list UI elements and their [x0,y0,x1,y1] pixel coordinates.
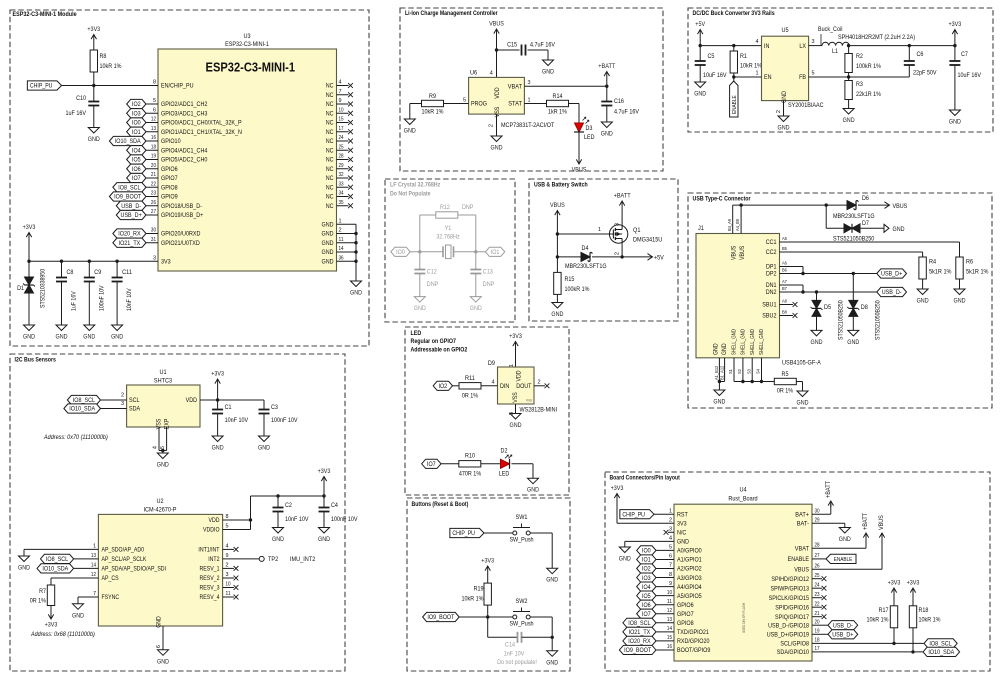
svg-text:36: 36 [339,255,344,261]
svg-text:GND: GND [542,69,554,76]
svg-text:RESV_2: RESV_2 [200,575,220,582]
svg-text:4: 4 [491,380,494,386]
svg-text:STS521050B250: STS521050B250 [874,300,881,340]
svg-text:A7: A7 [782,279,787,285]
svg-text:B6: B6 [782,268,787,274]
svg-text:5k1R 1%: 5k1R 1% [966,269,989,276]
svg-text:GND: GND [272,536,284,543]
svg-text:24: 24 [815,582,820,588]
svg-text:IMU_INT2: IMU_INT2 [290,556,316,563]
svg-text:14: 14 [667,626,672,632]
svg-text:IO7: IO7 [642,611,651,618]
svg-text:NC: NC [326,175,334,182]
svg-text:IO5: IO5 [132,157,141,164]
svg-text:CHIP_PU: CHIP_PU [452,530,475,537]
svg-text:GPIO19/USB_D+: GPIO19/USB_D+ [161,212,203,219]
svg-text:MBR230LSFT1G: MBR230LSFT1G [833,213,875,220]
svg-text:GPIO7: GPIO7 [677,611,694,618]
svg-text:VBUS: VBUS [794,566,809,573]
svg-text:GPIO4/ADC1_CH4: GPIO4/ADC1_CH4 [161,147,208,154]
svg-text:NC: NC [326,129,334,136]
svg-text:I2C Bus Sensors: I2C Bus Sensors [15,357,57,364]
svg-text:R4: R4 [929,259,936,266]
svg-text:IO8_SCL: IO8_SCL [628,620,651,627]
svg-text:SCL/GPIO8: SCL/GPIO8 [780,641,809,648]
svg-text:MBR230LSFT1G: MBR230LSFT1G [565,263,607,270]
svg-text:10uF 16V: 10uF 16V [958,72,982,79]
svg-text:NC: NC [326,157,334,164]
svg-text:Li-Ion Charge Management Contr: Li-Ion Charge Management Controller [405,10,498,17]
svg-text:15: 15 [667,635,672,641]
svg-text:IN: IN [764,43,770,50]
svg-text:D7: D7 [862,220,869,227]
svg-text:RST: RST [677,511,688,518]
svg-text:DP2: DP2 [766,271,777,278]
svg-text:S1: S1 [728,369,734,374]
svg-text:VDD: VDD [209,517,220,524]
svg-text:Buttons (Reset & Boot): Buttons (Reset & Boot) [412,501,469,508]
svg-text:+BATT: +BATT [598,63,615,70]
svg-text:4: 4 [490,71,493,77]
svg-text:11: 11 [667,599,672,605]
svg-text:LED: LED [499,471,510,478]
svg-text:R2: R2 [856,53,863,60]
svg-text:16: 16 [667,644,672,650]
svg-text:LX: LX [799,43,806,50]
svg-text:IO6: IO6 [132,166,141,173]
svg-text:USB & Battery Switch: USB & Battery Switch [534,182,588,189]
svg-text:GND: GND [954,298,966,305]
svg-text:IO20_RX: IO20_RX [118,231,141,238]
svg-text:16: 16 [151,135,156,141]
svg-text:GND: GND [839,536,851,543]
svg-text:NC: NC [326,120,334,127]
svg-text:10: 10 [667,590,672,596]
svg-text:4: 4 [339,80,342,86]
svg-text:IO1: IO1 [132,129,141,136]
svg-text:USB Type-C Connector: USB Type-C Connector [693,196,752,203]
svg-text:14: 14 [339,246,344,252]
svg-text:33: 33 [339,181,344,187]
svg-text:GND: GND [949,119,961,126]
svg-text:RXD/GPIO20: RXD/GPIO20 [677,638,710,645]
svg-text:IO2: IO2 [132,101,141,108]
svg-text:IO8_SCL: IO8_SCL [73,397,96,404]
svg-text:GND: GND [713,343,720,355]
svg-text:20: 20 [151,163,156,169]
svg-text:C16: C16 [614,98,624,105]
svg-text:R18: R18 [919,607,929,614]
svg-text:13: 13 [667,617,672,623]
svg-text:0R 1%: 0R 1% [30,598,47,605]
svg-text:SPIHD/GPIO12: SPIHD/GPIO12 [771,576,809,583]
svg-text:ICM-42670-P: ICM-42670-P [144,507,178,514]
svg-text:Regular on GPIO7: Regular on GPIO7 [411,338,457,345]
svg-text:+5V: +5V [654,254,664,261]
svg-text:CC2: CC2 [766,249,777,256]
svg-text:IO1: IO1 [491,249,500,256]
svg-text:3: 3 [509,412,515,415]
svg-text:11: 11 [226,591,231,597]
svg-text:CHIP_PU: CHIP_PU [30,83,53,90]
svg-text:DC/DC Buck Converter 3V3 Rails: DC/DC Buck Converter 3V3 Rails [693,10,776,17]
svg-text:R7: R7 [39,588,46,595]
svg-text:DN1: DN1 [766,282,777,289]
svg-text:IO3: IO3 [132,110,141,117]
svg-text:+3V3: +3V3 [888,580,901,587]
svg-text:22: 22 [815,601,820,607]
svg-text:SW1: SW1 [516,514,528,521]
svg-text:GND: GND [56,334,68,341]
svg-text:D4: D4 [582,245,589,252]
svg-text:23: 23 [151,191,156,197]
svg-text:9: 9 [339,98,342,104]
svg-text:SPIQ/GPIO17: SPIQ/GPIO17 [775,614,809,621]
svg-text:U6: U6 [470,70,477,77]
svg-text:+3V3: +3V3 [949,21,962,28]
svg-text:U3: U3 [243,33,250,40]
svg-text:IO0: IO0 [132,120,141,127]
svg-text:3: 3 [615,223,621,226]
svg-text:IO2: IO2 [438,383,447,390]
svg-text:100nF 10V: 100nF 10V [271,417,298,424]
svg-text:SCL: SCL [129,397,140,404]
svg-text:19: 19 [151,154,156,160]
svg-text:GND: GND [88,136,100,143]
svg-text:27: 27 [815,553,820,559]
svg-text:C14: C14 [505,642,515,649]
svg-text:SHELL_GND: SHELL_GND [732,329,738,355]
svg-text:BOOT/GPIO9: BOOT/GPIO9 [677,647,711,654]
svg-text:U5: U5 [781,27,788,34]
svg-text:8: 8 [226,514,229,520]
svg-text:IO10_SDA: IO10_SDA [928,649,954,656]
svg-text:15: 15 [339,117,344,123]
svg-text:PROG: PROG [471,101,487,108]
svg-text:21: 21 [815,611,820,617]
svg-text:VBUS: VBUS [893,203,908,210]
svg-text:Do not populate!: Do not populate! [497,659,537,666]
svg-text:VBAT: VBAT [508,83,522,90]
svg-text:7: 7 [93,591,96,597]
svg-text:RESV_4: RESV_4 [200,594,220,601]
svg-text:+3V3: +3V3 [611,485,624,492]
svg-text:5: 5 [669,545,672,551]
svg-text:B7: B7 [782,286,787,292]
svg-text:FSYNC: FSYNC [102,594,120,601]
svg-text:R3: R3 [856,81,863,88]
svg-text:SDA: SDA [129,406,141,413]
svg-text:GND: GND [778,125,790,132]
svg-text:1nF 10V: 1nF 10V [504,651,525,658]
svg-text:7: 7 [669,563,672,569]
svg-text:L1: L1 [832,48,838,55]
svg-text:+3V3: +3V3 [87,26,100,33]
svg-text:C15: C15 [507,42,517,49]
svg-text:IO7: IO7 [427,461,436,468]
svg-text:INT2: INT2 [208,556,220,563]
svg-text:29: 29 [815,518,820,524]
svg-text:GPIO7: GPIO7 [161,175,178,182]
svg-text:GND: GND [212,445,224,452]
svg-text:3: 3 [812,39,815,45]
svg-text:34: 34 [339,191,344,197]
svg-text:GND: GND [491,145,503,152]
svg-text:VDDIO: VDDIO [203,527,220,534]
svg-text:INT1/INT: INT1/INT [198,547,219,554]
svg-text:DIN: DIN [500,383,510,390]
svg-text:B1_A12: B1_A12 [719,365,725,380]
svg-text:12: 12 [151,117,156,123]
svg-text:SHTC3: SHTC3 [154,378,172,385]
svg-text:10: 10 [339,107,344,113]
svg-text:VDD: VDD [186,397,198,404]
svg-text:GND: GND [414,305,426,312]
svg-text:GND: GND [601,131,613,138]
svg-text:C7: C7 [961,51,968,58]
svg-text:28: 28 [339,154,344,160]
svg-text:B5: B5 [782,246,787,252]
svg-text:6: 6 [153,107,156,113]
svg-text:+3V3: +3V3 [318,468,331,475]
svg-text:3V3: 3V3 [677,520,687,527]
svg-text:U4: U4 [739,487,746,494]
svg-text:WS2812B-MINI: WS2812B-MINI [520,407,558,414]
svg-text:D3: D3 [586,125,593,132]
svg-text:21: 21 [151,172,156,178]
svg-text:NC: NC [326,194,334,201]
svg-text:470R 1%: 470R 1% [459,471,482,478]
svg-text:IO10_SDA: IO10_SDA [115,138,141,145]
svg-text:0R 1%: 0R 1% [777,388,794,395]
svg-text:GND: GND [510,422,522,429]
svg-text:VBAT: VBAT [795,545,809,552]
svg-text:GND: GND [72,612,84,619]
svg-text:TXD/GPIO21: TXD/GPIO21 [677,629,709,636]
svg-text:VBUS: VBUS [489,21,504,28]
svg-text:11: 11 [339,237,344,243]
svg-text:RESV_1: RESV_1 [200,566,220,573]
svg-text:USB_D-: USB_D- [121,203,141,210]
svg-text:GND: GND [322,258,334,265]
svg-text:NC: NC [326,203,334,210]
svg-text:GND: GND [350,290,362,297]
svg-text:C1: C1 [225,404,232,411]
svg-text:NC: NC [326,184,334,191]
svg-text:19: 19 [815,629,820,635]
svg-text:C11: C11 [122,269,132,276]
svg-text:C6: C6 [917,51,924,58]
svg-text:9: 9 [226,553,229,559]
svg-text:GPIO0/ADC1_CH0/XTAL_32K_P: GPIO0/ADC1_CH0/XTAL_32K_P [161,120,242,127]
svg-text:1: 1 [669,508,672,514]
svg-text:DMG3415U: DMG3415U [633,237,662,244]
svg-text:GND: GND [322,240,334,247]
svg-text:GND: GND [404,128,416,135]
svg-text:S4: S4 [756,369,762,374]
svg-text:IO8_SCL: IO8_SCL [46,556,69,563]
svg-text:GND: GND [893,226,905,233]
svg-text:ENABLE: ENABLE [788,556,810,563]
svg-text:VBUS: VBUS [739,246,746,260]
svg-text:U1: U1 [159,369,166,376]
svg-text:2: 2 [226,563,229,569]
svg-text:18: 18 [815,638,820,644]
svg-text:GND: GND [843,117,855,124]
svg-text:SPH4018H2R2MT (2.2uH 2.2A): SPH4018H2R2MT (2.2uH 2.2A) [838,34,915,41]
svg-text:31: 31 [151,237,156,243]
svg-text:ESP32-C3-MINI-1: ESP32-C3-MINI-1 [225,41,269,48]
svg-text:27: 27 [151,209,156,215]
svg-text:GPIO8: GPIO8 [677,620,694,627]
svg-text:IO1: IO1 [642,557,651,564]
svg-text:GND: GND [527,487,539,494]
svg-text:GND: GND [721,343,728,355]
svg-text:25: 25 [339,144,344,150]
svg-text:STS5210338950: STS5210338950 [40,268,47,308]
svg-text:USB_D+: USB_D+ [121,212,142,219]
svg-text:GPIO3/ADC1_CH3: GPIO3/ADC1_CH3 [161,110,208,117]
svg-text:3: 3 [226,572,229,578]
svg-text:IO9_BOOT: IO9_BOOT [114,194,141,201]
svg-text:R11: R11 [465,375,475,382]
svg-text:USB_D+/GPIO19: USB_D+/GPIO19 [767,632,810,639]
svg-text:SY2001BIAAC: SY2001BIAAC [788,102,824,109]
svg-text:GND: GND [322,249,334,256]
svg-text:IO21_TX: IO21_TX [119,240,141,247]
svg-text:ENABLE: ENABLE [732,95,738,114]
svg-text:A4/GPIO4: A4/GPIO4 [677,584,702,591]
svg-text:5: 5 [463,97,466,103]
svg-text:3V3: 3V3 [161,258,171,265]
svg-text:100kR 1%: 100kR 1% [565,286,590,293]
svg-text:GND: GND [157,658,169,665]
svg-text:U2: U2 [156,498,163,505]
svg-text:IO8_SCL: IO8_SCL [929,641,952,648]
svg-text:C12: C12 [427,269,437,276]
svg-text:10kR 1%: 10kR 1% [462,596,484,603]
svg-text:1: 1 [598,227,601,233]
svg-text:22k1R 1%: 22k1R 1% [856,91,881,98]
svg-text:+3V3: +3V3 [23,224,36,231]
svg-text:R17: R17 [879,607,889,614]
svg-text:A0/GPIO0: A0/GPIO0 [677,548,702,555]
svg-text:R8: R8 [100,53,107,60]
svg-text:IO21_TX: IO21_TX [629,629,651,636]
svg-text:GND: GND [18,565,30,572]
svg-text:GND: GND [546,659,558,666]
svg-text:ESP32-C3-MINI-1 Module: ESP32-C3-MINI-1 Module [13,11,78,18]
svg-text:10nF 10V: 10nF 10V [285,516,309,523]
svg-text:2: 2 [615,252,621,255]
svg-text:A8: A8 [782,299,787,305]
svg-text:2: 2 [489,124,495,127]
svg-text:GPIO9: GPIO9 [161,194,178,201]
svg-text:4: 4 [755,39,758,45]
svg-text:IO10_SDA: IO10_SDA [69,406,95,413]
svg-text:10: 10 [226,582,231,588]
svg-text:4: 4 [153,446,159,449]
svg-text:32: 32 [339,172,344,178]
svg-text:VBUS: VBUS [550,202,565,209]
svg-text:17: 17 [815,646,820,652]
svg-text:SHELL_GND: SHELL_GND [759,329,765,355]
svg-text:GPIO6: GPIO6 [677,602,694,609]
svg-text:C2: C2 [285,502,292,509]
svg-text:A3/GPIO3: A3/GPIO3 [677,575,702,582]
svg-text:S3: S3 [746,369,752,374]
svg-text:Addressable on GPIO2: Addressable on GPIO2 [411,347,468,354]
svg-text:GPIO1/ADC1_CH1/XTAL_32K_N: GPIO1/ADC1_CH1/XTAL_32K_N [161,129,242,136]
svg-text:12: 12 [667,608,672,614]
svg-text:ESP32-C3-MINI-1: ESP32-C3-MINI-1 [206,61,296,75]
svg-text:+BATT: +BATT [614,193,631,200]
svg-text:18: 18 [151,144,156,150]
svg-text:LED: LED [584,134,595,141]
svg-text:1: 1 [93,544,96,550]
svg-text:SPICLK/GPIO15: SPICLK/GPIO15 [769,595,810,602]
svg-text:D8: D8 [861,304,868,311]
svg-text:GPIO21/U0TXD: GPIO21/U0TXD [161,240,200,247]
svg-text:8: 8 [669,572,672,578]
svg-text:GND: GND [546,577,558,584]
svg-text:D5: D5 [824,304,831,311]
svg-text:1: 1 [528,97,531,103]
svg-text:Address: 0x68 (1101000b): Address: 0x68 (1101000b) [30,631,95,638]
svg-text:AP_CS: AP_CS [102,575,119,582]
svg-text:S2: S2 [737,369,743,374]
svg-text:10nF 10V: 10nF 10V [126,288,133,311]
svg-text:NC: NC [326,101,334,108]
svg-text:B4_A9: B4_A9 [727,219,733,231]
svg-text:VSS: VSS [512,392,519,402]
svg-text:0R 1%: 0R 1% [462,393,479,400]
svg-text:GPIO2/ADC1_CH2: GPIO2/ADC1_CH2 [161,101,208,108]
svg-text:5: 5 [153,98,156,104]
svg-text:GPIO6: GPIO6 [161,166,178,173]
svg-text:AP_SDO/AP_AD0: AP_SDO/AP_AD0 [102,547,145,554]
svg-text:GPIO20/U0RXD: GPIO20/U0RXD [161,231,201,238]
svg-text:EN/CHIP_PU: EN/CHIP_PU [161,83,194,90]
svg-text:IO5: IO5 [642,593,651,600]
svg-text:9: 9 [669,581,672,587]
svg-text:32.768Hz: 32.768Hz [436,234,459,241]
svg-text:A5/GPIO5: A5/GPIO5 [677,593,702,600]
svg-text:VSS: VSS [494,107,501,118]
svg-text:IO4: IO4 [642,584,651,591]
svg-text:R19: R19 [474,586,484,593]
svg-text:4.7uF 16V: 4.7uF 16V [614,109,640,116]
svg-text:12: 12 [91,572,96,578]
svg-text:DNP: DNP [427,281,438,288]
svg-text:7: 7 [339,89,342,95]
svg-text:R10: R10 [465,453,475,460]
svg-text:30: 30 [815,508,820,514]
svg-text:10kR 1%: 10kR 1% [422,109,444,116]
svg-text:NC: NC [326,110,334,117]
svg-text:SBU1: SBU1 [762,302,777,309]
svg-text:IO20_RX: IO20_RX [628,638,651,645]
svg-text:DN2: DN2 [766,289,777,296]
svg-text:10kR 1%: 10kR 1% [919,617,941,624]
svg-text:NC: NC [326,147,334,154]
svg-text:+3V3: +3V3 [211,371,224,378]
svg-text:LED: LED [411,330,422,337]
svg-text:R6: R6 [966,259,973,266]
svg-text:STAT: STAT [508,101,522,108]
svg-text:DOUT: DOUT [516,383,531,390]
svg-text:Do Not Populate: Do Not Populate [390,191,431,198]
